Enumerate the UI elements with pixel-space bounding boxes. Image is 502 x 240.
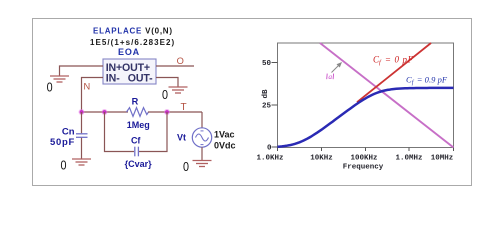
svg-text:10MHz: 10MHz (431, 155, 454, 163)
svg-text:OUT-: OUT- (128, 72, 153, 84)
wire Cn bottom (81, 138, 83, 159)
svg-text:0: 0 (267, 145, 272, 153)
svg-text:dB: dB (262, 89, 270, 99)
annotation arrow (332, 65, 340, 73)
wire Vt top (201, 112, 203, 128)
open-loop gain line |a| (magenta) (320, 43, 454, 148)
svg-text:100KHz: 100KHz (350, 155, 377, 163)
svg-text:{Cvar}: {Cvar} (125, 159, 153, 169)
label |a| (327, 72, 334, 81)
ground (Vt) (193, 161, 212, 167)
svg-text:ELAPLACEV(0,N): ELAPLACEV(0,N) (93, 27, 173, 36)
resistor R1 zigzag (127, 108, 149, 117)
svg-text:1.0KHz: 1.0KHz (256, 155, 283, 163)
svg-text:N: N (83, 81, 90, 91)
svg-text:0: 0 (47, 80, 53, 95)
svg-text:Cn: Cn (62, 126, 75, 137)
wire Cf loop right (139, 112, 167, 152)
svg-text:O: O (177, 56, 184, 66)
svg-text:EOA: EOA (118, 47, 140, 57)
ground (Cn) (72, 159, 91, 165)
svg-text:10KHz: 10KHz (310, 155, 333, 163)
capacitor Cf (135, 147, 139, 157)
ground (OUT-) (169, 87, 188, 93)
y tick 50 (272, 62, 278, 64)
wire OUT+ output (156, 65, 194, 67)
svg-text:R: R (132, 97, 139, 107)
figure frame (33, 19, 472, 186)
wire rail right segment (148, 111, 202, 113)
svg-text:Cf = 0 pF: Cf = 0 pF (373, 54, 414, 66)
y tick 0 (272, 146, 278, 148)
svg-text:1Meg: 1Meg (127, 120, 150, 130)
svg-text:Frequency: Frequency (343, 164, 384, 172)
svg-text:Vt: Vt (177, 132, 186, 142)
junction Cf left (102, 109, 108, 115)
svg-text:0: 0 (162, 87, 168, 102)
noise gain curve Cf=0.9pF (blue) (278, 88, 454, 147)
svg-text:0: 0 (61, 158, 67, 173)
wire Vt bottom (201, 147, 203, 160)
wire Cn top (81, 112, 83, 133)
svg-text:a: a (328, 72, 332, 81)
ground (IN+) (50, 76, 69, 82)
wire rail left segment (82, 111, 129, 113)
svg-text:1.0MHz: 1.0MHz (395, 155, 422, 163)
wire IN+ to ground (60, 66, 104, 76)
svg-text:1E5/(1+s/6.283E2): 1E5/(1+s/6.283E2) (90, 38, 175, 47)
op-amp block EOA (103, 59, 156, 84)
wire Cf loop left (105, 112, 135, 152)
svg-text:0Vdc: 0Vdc (214, 140, 236, 150)
noise gain line Cf=0 (red) (357, 43, 431, 102)
svg-text:0: 0 (183, 159, 189, 174)
plot box (278, 43, 454, 148)
junction node N (79, 109, 85, 115)
wire IN- to node N (82, 78, 104, 113)
y tick 25 (272, 104, 278, 106)
svg-text:50: 50 (262, 60, 272, 68)
wire OUT- to ground (156, 78, 178, 87)
capacitor Cn (76, 134, 88, 138)
svg-text:25: 25 (262, 103, 272, 111)
svg-text:IN-: IN- (106, 72, 121, 84)
svg-text:T: T (180, 102, 186, 113)
svg-text:Cf: Cf (131, 136, 141, 146)
svg-text:1Vac: 1Vac (214, 129, 235, 139)
x ticks (278, 148, 454, 152)
svg-text:50pF: 50pF (50, 137, 75, 148)
voltage source Vt (192, 128, 211, 147)
junction Cf right (164, 109, 170, 115)
